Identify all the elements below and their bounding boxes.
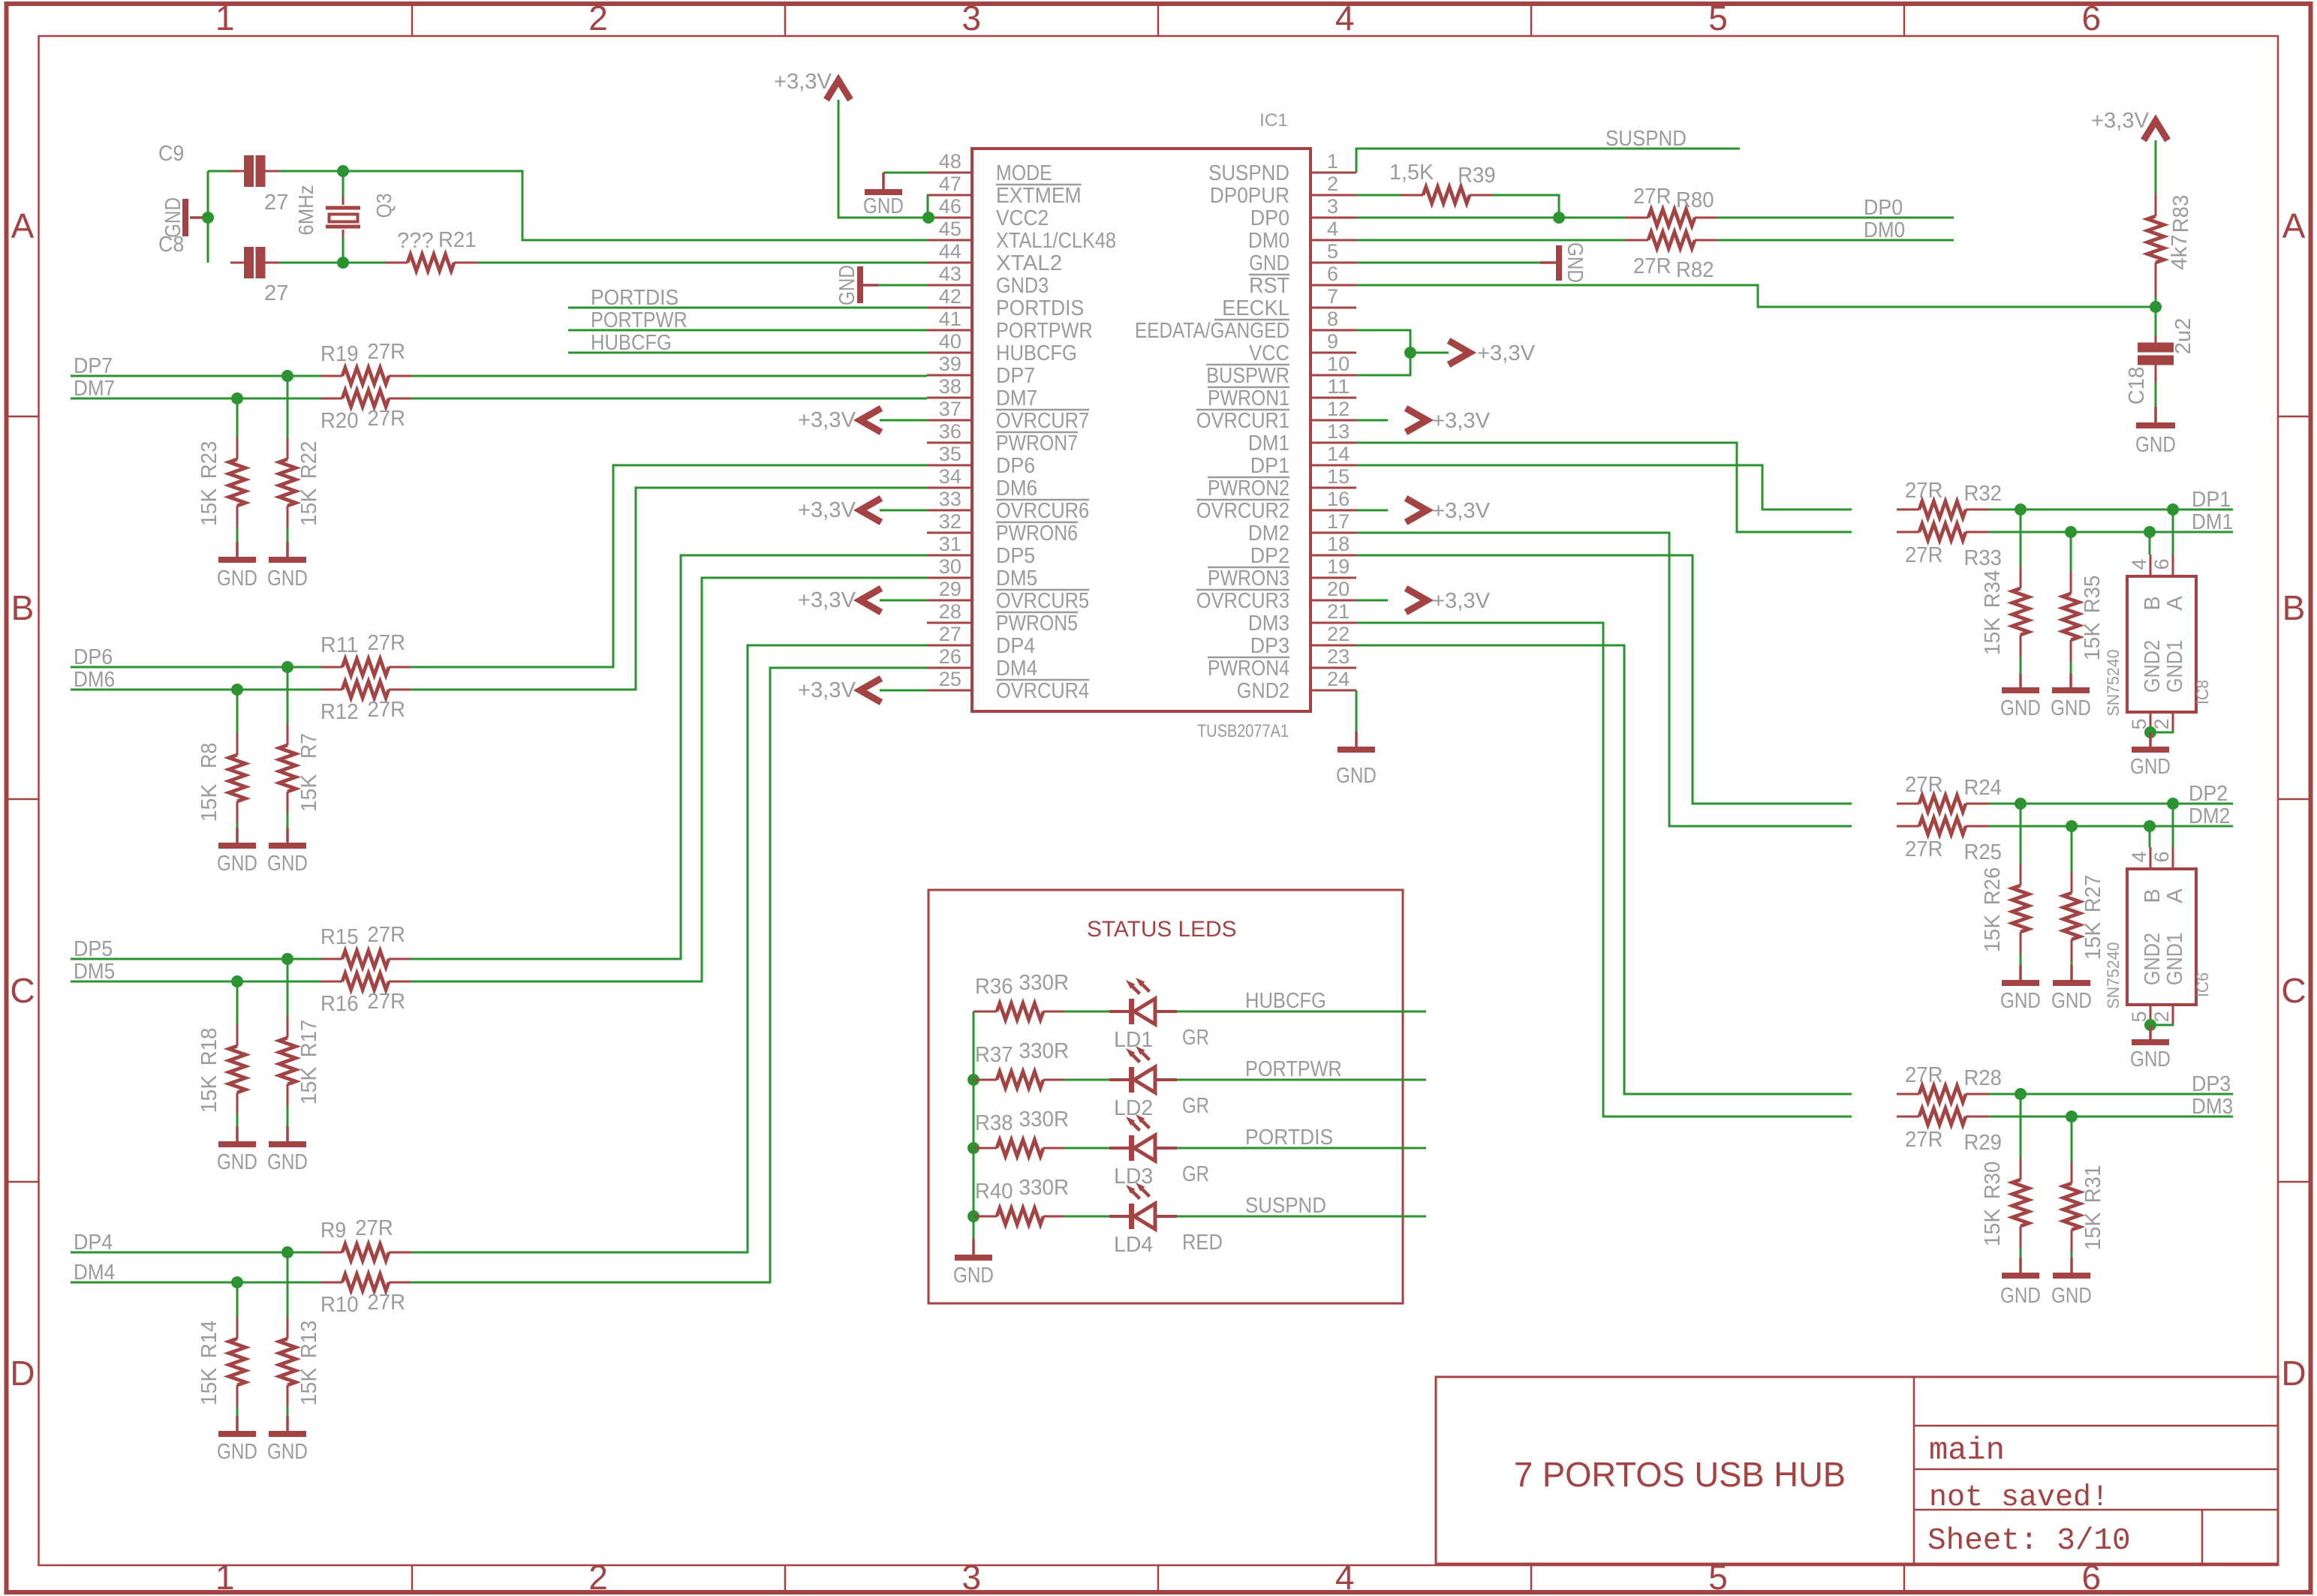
svg-text:34: 34: [939, 465, 961, 488]
IC1 pin 43 GND3: [927, 284, 972, 287]
IC1 pin 42 PORTDIS: [927, 307, 972, 309]
IC1 pin 6 RST: [1310, 284, 1356, 287]
node crystal top junction: [337, 165, 349, 177]
svg-text:SN75240: SN75240: [2104, 942, 2123, 1009]
svg-text:R32: R32: [1963, 482, 2002, 506]
wire R35 to gnd: [2070, 662, 2072, 674]
svg-text:27R: 27R: [367, 990, 405, 1014]
svg-text:EXTMEM: EXTMEM: [996, 184, 1082, 208]
svg-text:C8: C8: [158, 233, 184, 257]
svg-text:???: ???: [397, 229, 434, 253]
svg-text:4: 4: [1335, 0, 1355, 38]
wire R27 to gnd: [2071, 961, 2073, 965]
svg-text:DP4: DP4: [996, 634, 1035, 658]
wire DP1 from pin14: [1356, 465, 1852, 509]
IC1 pin 26 DM4: [927, 667, 972, 669]
wire IC6 pin4 to DM2: [2149, 826, 2151, 847]
wire IC8 pin6 to DP1: [2172, 509, 2174, 555]
node DM1 junction IC8: [2144, 526, 2156, 538]
node led bus junction R37: [967, 1074, 979, 1086]
resistor R30: [2020, 1158, 2022, 1180]
svg-text:R16: R16: [320, 992, 359, 1016]
svg-text:DM5: DM5: [74, 960, 115, 984]
ground R22 GND: [286, 542, 289, 560]
svg-text:SUSPND: SUSPND: [1605, 127, 1687, 151]
node DP2 junction IC6: [2167, 798, 2179, 810]
IC1 pin 39 DP7: [927, 374, 972, 377]
svg-text:+3,3V: +3,3V: [798, 588, 856, 612]
ground R34 GND: [2019, 674, 2022, 690]
resistor R20: [320, 398, 342, 400]
svg-text:15K: 15K: [2081, 622, 2105, 660]
svg-text:XTAL1/CLK48: XTAL1/CLK48: [996, 229, 1116, 253]
svg-text:27R: 27R: [367, 340, 405, 364]
wire +3,3V to R83: [2155, 140, 2157, 194]
IC1 pin 9 VCC: [1310, 352, 1356, 354]
IC1 pin 1 SUSPND: [1310, 172, 1356, 174]
IC1 pin 17 DM2: [1310, 532, 1356, 534]
wire R7 to gnd: [287, 813, 289, 828]
svg-text:R29: R29: [1963, 1131, 2002, 1155]
svg-text:PWRON3: PWRON3: [1208, 567, 1289, 591]
crystal Q3: [342, 171, 345, 197]
svg-text:R30: R30: [1981, 1162, 2005, 1200]
svg-text:MODE: MODE: [996, 161, 1052, 185]
svg-text:DP2: DP2: [1250, 544, 1289, 568]
svg-text:3: 3: [1327, 195, 1338, 218]
IC1 pin 18 DP2: [1310, 555, 1356, 557]
node DP6 junction: [281, 661, 293, 673]
svg-text:GND: GND: [2000, 1284, 2041, 1308]
svg-text:EEDATA/GANGED: EEDATA/GANGED: [1135, 319, 1289, 343]
title block divider: [1913, 1377, 1915, 1564]
wire DP6 pulldown: [287, 667, 289, 723]
wire IC8 pins to gnd: [2150, 731, 2173, 732]
resistor R33: [1897, 531, 1919, 534]
resistor R80: [1626, 217, 1648, 219]
svg-text:20: 20: [1327, 578, 1350, 600]
wire R8 to gnd: [236, 823, 239, 828]
svg-text:PORTDIS: PORTDIS: [591, 286, 679, 310]
ground R30 GND: [2019, 1258, 2022, 1276]
wire DP7 to IC: [411, 375, 927, 377]
ground IC6 GND: [2149, 1025, 2152, 1042]
svg-text:DP6: DP6: [74, 645, 113, 669]
IC1 pin 41 PORTPWR: [927, 329, 972, 332]
svg-text:GND: GND: [217, 1440, 257, 1464]
svg-text:PWRON6: PWRON6: [996, 521, 1078, 546]
svg-text:9: 9: [1327, 330, 1338, 353]
svg-text:DP2: DP2: [2189, 782, 2228, 806]
svg-text:6: 6: [2150, 851, 2173, 862]
svg-text:2u2: 2u2: [2171, 318, 2195, 355]
wire C18 to gnd: [2155, 383, 2157, 407]
IC1 pin 33 OVRCUR6: [927, 509, 972, 512]
svg-text:27: 27: [264, 191, 289, 215]
power +3,3V top: [826, 80, 850, 100]
wire net DP7: [71, 375, 298, 377]
svg-text:OVRCUR4: OVRCUR4: [996, 679, 1089, 703]
svg-text:DP5: DP5: [996, 544, 1035, 568]
svg-text:OVRCUR2: OVRCUR2: [1196, 499, 1289, 523]
svg-text:DM5: DM5: [996, 567, 1037, 591]
IC1 pin 5 GND: [1310, 262, 1356, 264]
power +3,3V arrow OVRCUR y920: [880, 690, 927, 692]
node DM3 junction R31: [2066, 1111, 2078, 1123]
wire R17 to gnd: [287, 1106, 289, 1126]
svg-text:Sheet: 3/10: Sheet: 3/10: [1927, 1524, 2131, 1558]
svg-text:HUBCFG: HUBCFG: [1245, 989, 1326, 1013]
svg-text:C: C: [2281, 971, 2306, 1010]
resistor R8: [236, 733, 239, 755]
svg-text:R17: R17: [297, 1020, 321, 1058]
svg-text:1,5K: 1,5K: [1389, 161, 1434, 185]
svg-text:46: 46: [939, 195, 961, 218]
svg-text:GR: GR: [1182, 1094, 1209, 1118]
svg-text:R10: R10: [320, 1293, 359, 1317]
svg-text:GND: GND: [217, 852, 257, 876]
resistor R25: [1897, 825, 1919, 828]
svg-text:R33: R33: [1963, 546, 2002, 570]
svg-text:B: B: [11, 588, 35, 627]
svg-text:39: 39: [939, 353, 961, 375]
wire DP4 pulldown: [287, 1252, 289, 1317]
svg-text:27R: 27R: [1905, 543, 1943, 567]
svg-text:SUSPND: SUSPND: [1245, 1194, 1326, 1218]
wire DP3 from pin22: [1356, 645, 1852, 1094]
svg-text:30: 30: [939, 555, 961, 578]
wire net DM4: [71, 1282, 320, 1284]
svg-text:27R: 27R: [367, 698, 405, 722]
LED LD4: [1109, 1215, 1131, 1218]
IC1 pin 20 OVRCUR3: [1310, 600, 1356, 602]
svg-text:GND: GND: [267, 852, 308, 876]
wire DM1 from pin13: [1356, 443, 1852, 532]
svg-text:DM6: DM6: [74, 668, 115, 692]
svg-text:+3,3V: +3,3V: [798, 498, 856, 522]
wire net PORTPWR led: [1177, 1079, 1426, 1081]
power +3,3V arrow right y680: [1356, 509, 1388, 512]
title block rows: [1914, 1425, 2278, 1427]
wire DP5 to IC: [411, 555, 927, 959]
wire R40 to LD4: [1064, 1216, 1109, 1218]
svg-text:OVRCUR1: OVRCUR1: [1196, 409, 1289, 433]
ground crystal GND: [190, 216, 204, 219]
svg-text:DP5: DP5: [74, 937, 113, 961]
svg-text:330R: 330R: [1019, 971, 1069, 995]
node DM4 junction: [231, 1276, 243, 1288]
wire DM6 pulldown: [236, 690, 239, 733]
svg-text:27R: 27R: [1633, 254, 1672, 278]
wire R22 to gnd: [287, 527, 289, 542]
IC1 pin 25 OVRCUR4: [927, 690, 972, 692]
svg-text:PWRON7: PWRON7: [996, 431, 1078, 455]
power +3,3V arrow right y800: [1356, 600, 1388, 602]
svg-text:41: 41: [939, 308, 961, 330]
power +3,3V VCC arrow: [1410, 352, 1449, 354]
svg-text:DM2: DM2: [2189, 804, 2230, 828]
IC IC8 SN75240: [2127, 576, 2196, 712]
node DP1 junction R34: [2015, 503, 2027, 515]
IC1 pin 30 DM5: [927, 577, 972, 579]
IC1 pin 44 XTAL2: [927, 262, 972, 264]
svg-text:4: 4: [2128, 558, 2150, 570]
svg-text:24: 24: [1327, 668, 1350, 690]
svg-text:R82: R82: [1676, 258, 1714, 282]
resistor R31: [2071, 1162, 2073, 1183]
node DP7 junction: [281, 370, 293, 382]
resistor R29: [1897, 1116, 1919, 1118]
wire net DP4: [71, 1252, 298, 1254]
svg-text:1: 1: [215, 1558, 235, 1596]
svg-text:GND: GND: [835, 265, 859, 305]
svg-text:27: 27: [939, 623, 961, 645]
node VCC junction: [1404, 347, 1416, 359]
svg-text:4: 4: [1327, 218, 1338, 240]
svg-text:A: A: [2163, 596, 2187, 611]
resistor R9: [320, 1252, 342, 1254]
svg-text:GND: GND: [2051, 1284, 2092, 1308]
svg-text:15K: 15K: [1981, 914, 2005, 952]
resistor R83: [2155, 194, 2157, 216]
wire R30 to gnd: [2020, 1248, 2022, 1258]
ground R23 GND: [236, 542, 239, 560]
wire DP0PUR: [1356, 194, 1401, 197]
svg-text:HUBCFG: HUBCFG: [996, 341, 1077, 365]
node DM1 junction R35: [2065, 526, 2077, 538]
svg-text:DM7: DM7: [996, 386, 1037, 410]
node DM6 junction: [231, 684, 243, 696]
svg-text:15K: 15K: [2081, 921, 2105, 960]
ground pin5 GND: [1540, 261, 1556, 264]
ground C18 GND: [2154, 407, 2157, 425]
svg-text:R27: R27: [2081, 875, 2105, 913]
svg-text:7: 7: [1327, 285, 1338, 308]
ground GND2 pin24: [1355, 732, 1358, 750]
svg-text:15: 15: [1327, 465, 1350, 488]
svg-text:C9: C9: [158, 142, 184, 166]
wire R34 to gnd: [2020, 657, 2022, 674]
resistor R39: [1401, 194, 1423, 197]
svg-text:RST: RST: [1249, 274, 1289, 298]
IC1 pin 22 DP3: [1310, 645, 1356, 647]
wire net HUBCFG led: [1177, 1011, 1426, 1013]
IC1 TUSB2077A1 body: [972, 149, 1310, 711]
svg-text:B: B: [2141, 888, 2165, 903]
svg-text:C18: C18: [2125, 367, 2149, 405]
capacitor C8: [230, 262, 244, 264]
svg-text:+3,3V: +3,3V: [1432, 589, 1491, 613]
node DP2 junction R26: [2015, 798, 2027, 810]
wire net DM0: [1356, 239, 1626, 242]
wire DP6 a: [287, 666, 320, 669]
resistor R82: [1626, 239, 1648, 242]
svg-text:38: 38: [939, 375, 961, 398]
svg-text:R20: R20: [320, 409, 359, 433]
svg-text:40: 40: [939, 330, 961, 353]
svg-text:6MHz: 6MHz: [294, 185, 317, 235]
svg-text:R21: R21: [438, 228, 477, 252]
svg-text:DM4: DM4: [996, 657, 1037, 681]
svg-text:R11: R11: [320, 633, 359, 657]
svg-text:27R: 27R: [1905, 479, 1943, 503]
resistor R22: [287, 437, 289, 459]
svg-text:OVRCUR7: OVRCUR7: [996, 409, 1089, 433]
svg-text:18: 18: [1327, 533, 1350, 555]
IC1 pin 38 DM7: [927, 397, 972, 399]
svg-text:DM3: DM3: [1248, 612, 1289, 636]
wire net DM3: [1988, 1116, 2233, 1118]
svg-text:6: 6: [2150, 558, 2173, 570]
IC1 pin 4 DM0: [1310, 239, 1356, 242]
wire R14 to gnd: [236, 1407, 239, 1416]
IC1 pin 47 EXTMEM: [927, 194, 972, 197]
svg-text:22: 22: [1327, 623, 1350, 645]
svg-text:15K: 15K: [197, 1367, 221, 1405]
resistor R18: [236, 1024, 239, 1046]
wire DM4 to IC: [411, 668, 927, 1282]
IC1 pin 2 DP0PUR: [1310, 194, 1356, 197]
svg-text:DP4: DP4: [74, 1231, 113, 1255]
node led bus junction R40: [967, 1210, 979, 1222]
wire net PORTDIS led: [1177, 1147, 1426, 1150]
ground R7 GND: [286, 828, 289, 846]
IC1 pin 13 DM1: [1310, 442, 1356, 444]
svg-text:15K: 15K: [297, 488, 321, 526]
wire net DP3: [1988, 1093, 2233, 1096]
svg-text:GR: GR: [1182, 1026, 1209, 1050]
svg-text:32: 32: [939, 510, 961, 533]
wire DP4 to IC: [411, 645, 927, 1252]
wire net HUBCFG: [568, 352, 927, 354]
svg-text:D: D: [2281, 1354, 2306, 1393]
wire net PORTPWR: [568, 329, 927, 332]
svg-text:GND: GND: [2051, 696, 2091, 720]
wire IC8 pin4 to DM1: [2149, 532, 2151, 555]
wire +3,3V to VCC2: [838, 100, 927, 218]
svg-text:DM4: DM4: [74, 1261, 115, 1285]
svg-text:GND: GND: [217, 567, 257, 591]
svg-text:GND: GND: [2130, 755, 2171, 779]
resistor R12: [320, 689, 342, 691]
capacitor C9: [230, 170, 244, 173]
resistor R38: [973, 1147, 997, 1150]
svg-text:4k7: 4k7: [2168, 234, 2192, 270]
node led bus junction R38: [967, 1142, 979, 1154]
svg-text:12: 12: [1327, 398, 1350, 420]
svg-text:42: 42: [939, 285, 961, 308]
svg-text:2: 2: [588, 1558, 608, 1596]
ground R35 GND: [2069, 674, 2072, 690]
svg-text:SUSPND: SUSPND: [1208, 161, 1289, 185]
wire crystal top net: [208, 170, 230, 173]
svg-text:DP0: DP0: [1250, 206, 1289, 230]
wire R18 to gnd: [236, 1114, 239, 1126]
svg-text:C: C: [10, 971, 35, 1010]
svg-text:R34: R34: [1981, 570, 2005, 609]
svg-text:DM0: DM0: [1864, 218, 1905, 242]
wire R39 to DP0: [1492, 195, 1559, 218]
svg-text:VCC2: VCC2: [996, 206, 1049, 230]
svg-text:15K: 15K: [1981, 617, 2005, 655]
LED LD2: [1109, 1078, 1131, 1081]
IC1 pin 27 DP4: [927, 645, 972, 647]
status leds box: [928, 890, 1403, 1303]
svg-text:4: 4: [1335, 1558, 1355, 1596]
resistor R28: [1897, 1093, 1919, 1096]
power +3,3V arrow OVRCUR y680: [880, 509, 927, 512]
resistor R21: [385, 262, 408, 264]
svg-text:GND: GND: [1249, 251, 1289, 275]
svg-text:XTAL2: XTAL2: [996, 251, 1062, 275]
svg-text:GND1: GND1: [2163, 640, 2187, 693]
svg-text:15K: 15K: [197, 1075, 221, 1113]
svg-text:26: 26: [939, 645, 961, 668]
svg-text:2: 2: [1327, 173, 1338, 195]
wire R31 to gnd: [2071, 1252, 2073, 1258]
wire led gnd bus: [973, 1011, 975, 1239]
IC1 pin 36 PWRON7: [927, 442, 972, 444]
svg-text:GND: GND: [217, 1150, 257, 1174]
svg-text:R23: R23: [197, 441, 221, 479]
wire DP6 to IC: [411, 465, 927, 667]
svg-text:R35: R35: [2081, 576, 2105, 614]
wire IC6 pins to gnd: [2150, 1023, 2173, 1025]
IC1 pin 40 HUBCFG: [927, 352, 972, 354]
wire DP2 from pin18: [1356, 555, 1852, 804]
wire crystal bottom net: [278, 262, 385, 264]
svg-text:DP7: DP7: [74, 354, 113, 378]
svg-text:DP6: DP6: [996, 454, 1035, 478]
svg-text:15K: 15K: [297, 774, 321, 812]
svg-text:DP3: DP3: [1250, 634, 1289, 658]
svg-text:27R: 27R: [367, 631, 405, 655]
svg-text:+3,3V: +3,3V: [1432, 409, 1491, 433]
ground MODE GND: [882, 173, 885, 192]
node DP5 junction: [281, 953, 293, 965]
svg-text:B: B: [2282, 588, 2306, 627]
svg-text:DM1: DM1: [1248, 431, 1289, 455]
svg-text:R14: R14: [197, 1321, 221, 1359]
svg-text:PWRON2: PWRON2: [1208, 476, 1289, 500]
svg-text:GND: GND: [953, 1264, 994, 1288]
wire GND pin5: [1356, 262, 1540, 264]
svg-text:R12: R12: [320, 700, 359, 724]
wire net DP6: [71, 666, 298, 669]
wire R13 to gnd: [287, 1407, 289, 1416]
svg-text:GND: GND: [2130, 1047, 2171, 1072]
wire DM3 pulldown: [2071, 1117, 2073, 1162]
svg-text:27R: 27R: [367, 407, 405, 431]
node DP4 junction: [281, 1246, 293, 1258]
svg-text:A: A: [2163, 888, 2187, 903]
svg-text:OVRCUR6: OVRCUR6: [996, 499, 1089, 523]
svg-text:DP0: DP0: [1864, 196, 1903, 220]
svg-text:DP1: DP1: [1250, 454, 1289, 478]
svg-text:R39: R39: [1458, 164, 1496, 188]
svg-text:23: 23: [1327, 645, 1350, 668]
svg-text:DM0: DM0: [1248, 229, 1289, 253]
IC1 pin 32 PWRON6: [927, 532, 972, 534]
svg-text:D: D: [10, 1354, 35, 1393]
svg-text:EECKL: EECKL: [1222, 296, 1289, 320]
svg-text:GND: GND: [1336, 764, 1377, 788]
node DM7 junction: [231, 392, 243, 404]
node DP1 junction IC8: [2167, 503, 2179, 515]
resistor R40: [973, 1216, 997, 1218]
svg-text:+3,3V: +3,3V: [2091, 109, 2150, 133]
svg-text:OVRCUR5: OVRCUR5: [996, 589, 1089, 613]
